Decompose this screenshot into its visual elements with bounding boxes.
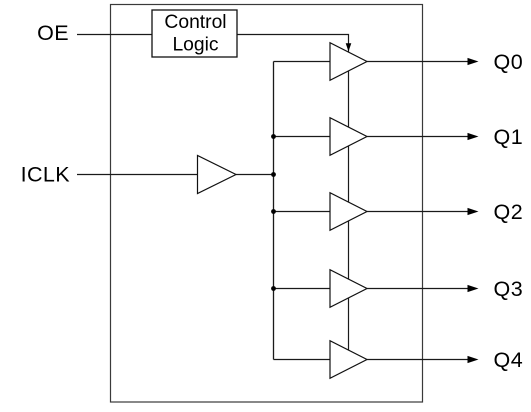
junction dot at ICLK (271, 172, 276, 177)
svg-text:OE: OE (37, 21, 69, 45)
output buffer 1 (Q0) (330, 43, 367, 81)
arrowhead Q3 (468, 285, 479, 292)
chip outline box (111, 5, 423, 403)
input buffer ICLK (198, 156, 237, 194)
output buffer 4 (Q3) (330, 270, 367, 308)
arrowhead Q4 (468, 356, 479, 363)
junction dot at Q2 branch (271, 209, 276, 214)
arrowhead Q0 (468, 58, 479, 65)
svg-text:ICLK: ICLK (21, 162, 71, 186)
arrowhead Q2 (468, 208, 479, 215)
wire branch to buffer Q0 (274, 61, 331, 63)
wire enable vertical line through buffers (348, 44, 350, 350)
wire Q0 output (367, 61, 469, 63)
output buffer 3 (Q2) (330, 193, 367, 231)
output buffer 5 (Q4) (330, 341, 367, 379)
junction dot at Q3 branch (271, 286, 276, 291)
wire Q4 output (367, 359, 469, 361)
control logic block (152, 10, 237, 57)
svg-text:Q3: Q3 (494, 277, 524, 301)
wire branch to buffer Q4 (274, 359, 331, 361)
wire Q1 output (367, 136, 469, 138)
wire Q2 output (367, 211, 469, 213)
svg-text:Logic: Logic (172, 34, 218, 55)
wire Q3 output (367, 288, 469, 290)
enable line arrowhead into buffer 1 (346, 43, 352, 51)
svg-text:Q0: Q0 (494, 50, 524, 74)
junction dot at Q1 branch (271, 134, 276, 139)
svg-text:Q1: Q1 (494, 125, 524, 149)
wire control logic output to enable line (237, 35, 349, 45)
svg-text:Q4: Q4 (494, 348, 524, 372)
svg-text:Control: Control (164, 12, 226, 33)
svg-text:Q2: Q2 (494, 200, 524, 224)
wire input buffer output to bus (236, 174, 274, 176)
output buffer 2 (Q1) (330, 118, 367, 156)
wire branch to buffer Q1 (274, 136, 331, 138)
wire branch to buffer Q3 (274, 288, 331, 290)
arrowhead Q1 (468, 133, 479, 140)
bus vertical wire (273, 62, 275, 360)
wire ICLK input (77, 174, 198, 176)
wire OE input (77, 34, 152, 36)
wire branch to buffer Q2 (274, 211, 331, 213)
